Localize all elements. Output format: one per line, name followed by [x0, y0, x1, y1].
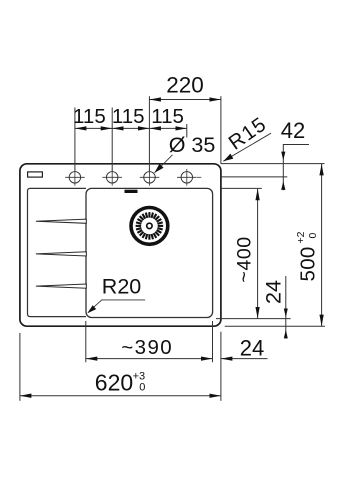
- tap hole 1: [65, 169, 85, 186]
- dimension 220 line: [149, 99, 221, 101]
- extension line sink right top: [220, 96, 222, 164]
- tap hole 2: [102, 169, 122, 186]
- svg-text:115: 115: [112, 105, 145, 128]
- dimension 24 horizontal tail: [221, 358, 268, 360]
- extension line hole1: [74, 108, 76, 171]
- svg-text:~390: ~390: [121, 336, 173, 359]
- extension line hole4: [186, 124, 188, 138]
- leader R20: [90, 300, 146, 311]
- extension line bowl right bottom: [212, 321, 214, 362]
- drainboard groove 1: [36, 219, 86, 223]
- drainboard groove 2: [36, 252, 86, 256]
- svg-text:42: 42: [281, 118, 305, 143]
- svg-text:24: 24: [261, 280, 285, 304]
- dimension 24 vertical up arrow: [284, 330, 288, 339]
- overflow slot: [125, 190, 138, 193]
- tap hole 4: [177, 169, 197, 186]
- extension line hole centerline right: [221, 176, 287, 178]
- drain sunburst ticks: [136, 212, 164, 240]
- hole centerline dash right of hole 4: [197, 176, 201, 178]
- svg-text:115: 115: [73, 105, 106, 128]
- svg-text:620: 620: [95, 369, 133, 395]
- drainboard outline: [28, 188, 87, 316]
- svg-text:+2: +2: [295, 231, 307, 243]
- svg-text:~400: ~400: [233, 236, 255, 282]
- drain inner center ring: [147, 223, 152, 228]
- bowl outline: [86, 188, 213, 317]
- dimension 42 bar: [283, 145, 309, 191]
- dimension ~400 line: [257, 189, 259, 319]
- extension line hole3: [148, 96, 150, 170]
- dimension ~390 line: [86, 358, 213, 360]
- leader R15: [223, 133, 271, 161]
- sink outer outline: [20, 164, 221, 326]
- dimension 24 vertical line: [285, 276, 287, 339]
- dimension 500 line: [321, 164, 323, 326]
- leader R20 arrow: [87, 305, 96, 313]
- svg-text:500: 500: [297, 246, 320, 281]
- svg-text:Ø 35: Ø 35: [169, 133, 216, 157]
- drain outer ring: [131, 208, 168, 245]
- extension line sink right bottom: [220, 332, 222, 401]
- svg-text:0: 0: [139, 381, 145, 393]
- svg-text:115: 115: [151, 105, 184, 128]
- extension line bowl top right: [221, 187, 262, 189]
- dimension 115 segment 1: [75, 127, 112, 129]
- extension line bowl left bottom: [85, 321, 87, 362]
- extension line hole2: [111, 108, 113, 171]
- extension line sink left bottom: [19, 333, 21, 401]
- svg-text:220: 220: [166, 73, 204, 98]
- dimension 115 segment 3: [149, 127, 186, 129]
- dimension 42 down arrow: [281, 152, 285, 161]
- dimension 620 line: [20, 395, 221, 397]
- tap hole 3: [140, 169, 160, 186]
- extension line sink top right: [221, 163, 325, 165]
- extension line bowl bottom right: [216, 318, 291, 320]
- logo plate rectangle: [28, 172, 43, 177]
- svg-text:R20: R20: [102, 275, 141, 299]
- dimension 115 segment 2: [112, 127, 149, 129]
- svg-text:24: 24: [240, 336, 264, 361]
- leader diameter 35: [155, 155, 173, 173]
- dimension 42 up arrow: [281, 181, 285, 190]
- drainboard groove 3: [36, 284, 86, 288]
- extension line sink bottom right: [225, 325, 325, 327]
- dimension 24 vertical down arrow: [284, 309, 288, 318]
- svg-text:0: 0: [307, 233, 319, 239]
